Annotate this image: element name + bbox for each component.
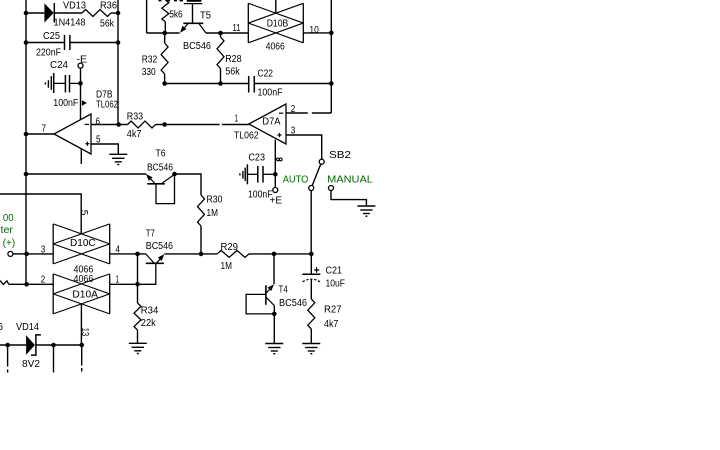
junction dot (right rail y13) [116,11,121,16]
svg-text:330: 330 [142,67,156,78]
op-amp U D7A TL062 [249,104,286,144]
svg-text:AUTO: AUTO [283,174,309,185]
svg-text:ter: ter [1,225,14,236]
ground (SB2 MANUAL) [357,205,375,207]
svg-text:4k7: 4k7 [324,319,339,330]
junction dot (C22/right rail) [329,81,334,86]
resistor R31 (cut at top) [162,0,169,22]
wire D10C pin3 [27,253,54,255]
wire C21 top [310,254,312,274]
svg-text:3: 3 [41,245,46,256]
analog switch D10B 4066 [248,3,303,43]
wire T5 collector to D10B pin11 [206,32,249,34]
wire MANUAL contact to ground [331,191,366,207]
wire D10A pin1 [110,283,138,285]
svg-text:R29: R29 [221,242,239,253]
wire pin2 [286,112,308,114]
svg-text:BC546: BC546 [183,41,211,52]
svg-text:(+): (+) [3,238,16,249]
wire T7 node down [137,254,139,284]
wire stub b (continuation) [53,345,55,373]
terminal input (+) [8,251,13,256]
svg-text:2: 2 [41,274,46,285]
wire D10A control to VD14 net [80,304,82,345]
wire C22 right [255,83,332,85]
svg-text:R30: R30 [207,195,223,206]
svg-text:R28: R28 [225,54,242,65]
svg-text:R27: R27 [324,305,342,316]
svg-text:R33: R33 [127,111,144,122]
resistor R34 22k [137,284,139,303]
mark infinity on stub [277,158,280,161]
resistor R28 56k [220,33,222,37]
terminal +E [273,188,278,193]
wire control bus to D10C [0,194,81,234]
svg-text:-E: -E [77,54,88,65]
svg-text:6: 6 [96,116,101,127]
svg-text:4: 4 [116,245,121,256]
junction dot (R29/C21) [309,252,314,257]
svg-text:C23: C23 [248,152,265,163]
svg-text:7: 7 [42,124,47,135]
wire T7 emitter to R29 [164,253,217,255]
resistor R33 4k7 [128,121,156,128]
wire R36 right [111,12,118,14]
svg-text:BC546: BC546 [147,163,173,174]
wire AUTO contact down [310,191,312,254]
switch SB2 arm [312,164,321,186]
op-amp D7B plus sign [85,143,89,145]
junction dot (R28/C22) [218,81,223,86]
svg-text:TL062: TL062 [234,131,259,142]
svg-text:11: 11 [233,23,241,34]
svg-text:100nF: 100nF [53,98,78,109]
svg-text:5k6: 5k6 [169,10,183,21]
svg-text:BC546: BC546 [146,241,174,252]
junction dot (R31/R32/T5 emitter) [163,31,168,36]
switch SB2 contact AUTO [309,186,314,191]
ground (pin5) [109,153,127,155]
junction dot (C24/-E node) [78,81,83,86]
svg-text:R32: R32 [142,54,158,65]
capacitor C23 100nF with fading plates [239,173,241,175]
junction dot (pin2/left rail) [24,282,29,287]
ground (R27) [302,343,320,345]
svg-text:6: 6 [0,322,3,333]
svg-text:56k: 56k [225,67,240,78]
svg-text:D7A: D7A [262,116,280,127]
wire D10A pin2 [9,283,53,285]
wire VD13 anode [26,12,44,14]
svg-text:T4: T4 [279,284,289,295]
svg-text:56k: 56k [100,19,115,30]
junction dot (T7 base/pin1/R34) [135,282,140,287]
resistor R30 1M [198,195,205,226]
svg-text:10: 10 [309,25,319,36]
svg-text:4066: 4066 [266,42,285,53]
ground (R34) [129,342,147,344]
op-amp U D7B TL062 [54,114,91,154]
wire stub a (continuation) [7,345,9,367]
wire C24 node to op-amp top [80,83,82,119]
wire C25 left [26,42,64,44]
wire R29 right [249,253,311,255]
svg-text:13: 13 [79,328,90,337]
svg-text:R36: R36 [100,1,117,12]
wire -E to C24 node [80,68,82,83]
op-amp D7A plus sign [277,134,281,136]
svg-text:SB2: SB2 [329,150,352,161]
junction dot (pin6/rail118) [116,122,121,127]
wire left rail (-E bus) x=26 [25,0,27,284]
svg-text:C21: C21 [326,266,343,277]
svg-text:R34: R34 [141,305,159,316]
wire rail x=118 (VD13/C25 right) [117,0,119,125]
transistor T5 BC546 [192,4,194,23]
transistor T7 BC546 [146,254,154,263]
capacitor C22 100nF [248,76,250,93]
svg-text:BC546: BC546 [279,298,307,309]
svg-text:8V2: 8V2 [22,359,40,370]
junction dot (left rail y42.5) [24,40,29,45]
svg-text:2: 2 [291,104,296,115]
wire right rail x=331.3 [330,0,332,113]
junction dot (input/left rail) [24,252,29,257]
junction dot (VD14 net a) [5,343,10,348]
ground (T4) [265,343,283,345]
svg-text:1: 1 [116,274,120,285]
junction dot (left rail y174) [24,172,29,177]
wire T4 emitter up [273,254,275,284]
junction dot (T4 base-collector) [272,312,277,317]
junction dot (C23/D7A stub) [273,172,278,177]
wire pin6 [91,124,128,126]
junction dot (left rail y13) [24,11,29,16]
svg-text:D10A: D10A [72,290,98,301]
wire C22 left [165,83,249,85]
svg-text:C24: C24 [50,60,68,71]
wire C25 right [70,42,118,44]
junction dot (pin10/right rail) [329,31,334,36]
analog switch D10A 4066 [53,274,109,314]
junction dot (R32/C22) [162,81,167,86]
svg-text:5: 5 [78,210,89,216]
svg-text:00: 00 [3,213,14,224]
svg-text:4k7: 4k7 [127,129,142,140]
svg-text:C25: C25 [43,31,60,42]
svg-text:+E: +E [270,195,283,206]
wire input terminal to rail [13,253,27,255]
svg-text:100nF: 100nF [258,87,283,98]
terminal -E [78,63,83,68]
svg-text:T7: T7 [146,228,155,239]
resistor R36 [82,10,111,17]
wire stub c (continuation) [81,345,83,366]
diode VD13 1N4148 [44,3,53,22]
op-amp D7B lower stub [80,149,82,164]
wire VD13 cathode to R36 [54,12,82,14]
svg-text:3: 3 [291,126,296,137]
svg-text:22k: 22k [141,318,157,329]
label R31 cut sliver [159,0,162,1]
op-amp D7B minus sign [85,123,89,125]
junction dot (R30/R29) [199,252,204,257]
junction dot (R33/R32 column) [162,122,167,127]
svg-text:T5: T5 [200,11,211,22]
plus sign (C21) [314,269,319,271]
svg-text:TL062: TL062 [96,99,118,110]
junction dot (R29/T4) [272,252,277,257]
resistor R32 330 [164,33,166,43]
wire C21 bottom [310,279,312,299]
wire R33 to D7A pin1 [156,124,220,126]
wire T6 collector to R30 [175,174,202,195]
switch SB2 contact MANUAL [329,186,334,191]
svg-text:D10C: D10C [70,238,96,249]
svg-text:1M: 1M [207,208,219,219]
svg-text:220nF: 220nF [36,48,61,59]
wire to +E terminal [274,174,276,187]
svg-text:C22: C22 [258,69,274,80]
wire pin5 [91,144,118,154]
wire T4 to ground [273,314,275,344]
wire pin7 output [26,133,54,135]
resistor R29 1M [217,250,249,257]
wire VD14 right [36,344,83,346]
op-amp D7A power stub [274,140,276,175]
svg-text:1N4148: 1N4148 [54,18,86,29]
junction dot (T7 collector node) [135,252,140,257]
analog switch D10C 4066 [53,224,109,264]
capacitor C25 220nF [64,35,66,50]
wire rail x=146.6 top-left [146,0,148,33]
capacitor plates above T5 (cut) [187,0,202,2]
capacitor C21 10uF polarized [302,273,320,275]
resistor cut at left edge y284 [0,281,9,285]
junction dot (T5 collector/R28) [218,31,223,36]
wire pin3 [286,135,322,159]
svg-text:MANUAL: MANUAL [327,175,373,186]
junction dot (rail118 y42.5) [116,40,121,45]
diode VD14 zener 8V2 [26,335,35,354]
switch SB2 contact common [319,159,324,164]
transistor T6 BC546 [146,174,153,181]
resistor R27 4k7 [308,299,315,329]
wire D10B control pin [275,0,277,13]
svg-text:1: 1 [235,114,239,125]
wire D10C pin4 [110,253,146,255]
svg-text:T6: T6 [156,149,166,160]
svg-text:D10B: D10B [267,19,289,30]
wire VD14 left [0,344,26,346]
op-amp D7A minus sign [279,112,283,114]
svg-text:VD14: VD14 [16,322,39,333]
wire y33 left segment [147,32,180,34]
junction dot (VD14 net b) [51,343,56,348]
capacitor C24 100nF with fading plates [44,82,46,84]
junction dot (pin7/left rail) [24,132,29,137]
svg-text:10uF: 10uF [326,278,346,289]
svg-text:1M: 1M [221,261,233,272]
junction dot (VD14 net c) [79,343,84,348]
svg-text:5: 5 [96,134,101,145]
wire -E bus to T6 emitter [26,173,146,175]
transistor T4 BC546 [265,285,267,305]
svg-text:VD13: VD13 [63,1,86,12]
op-amp D7B bias arrow [82,100,87,106]
junction dot (T6 collector) [172,172,177,177]
wire D10B pin10 [303,32,331,34]
